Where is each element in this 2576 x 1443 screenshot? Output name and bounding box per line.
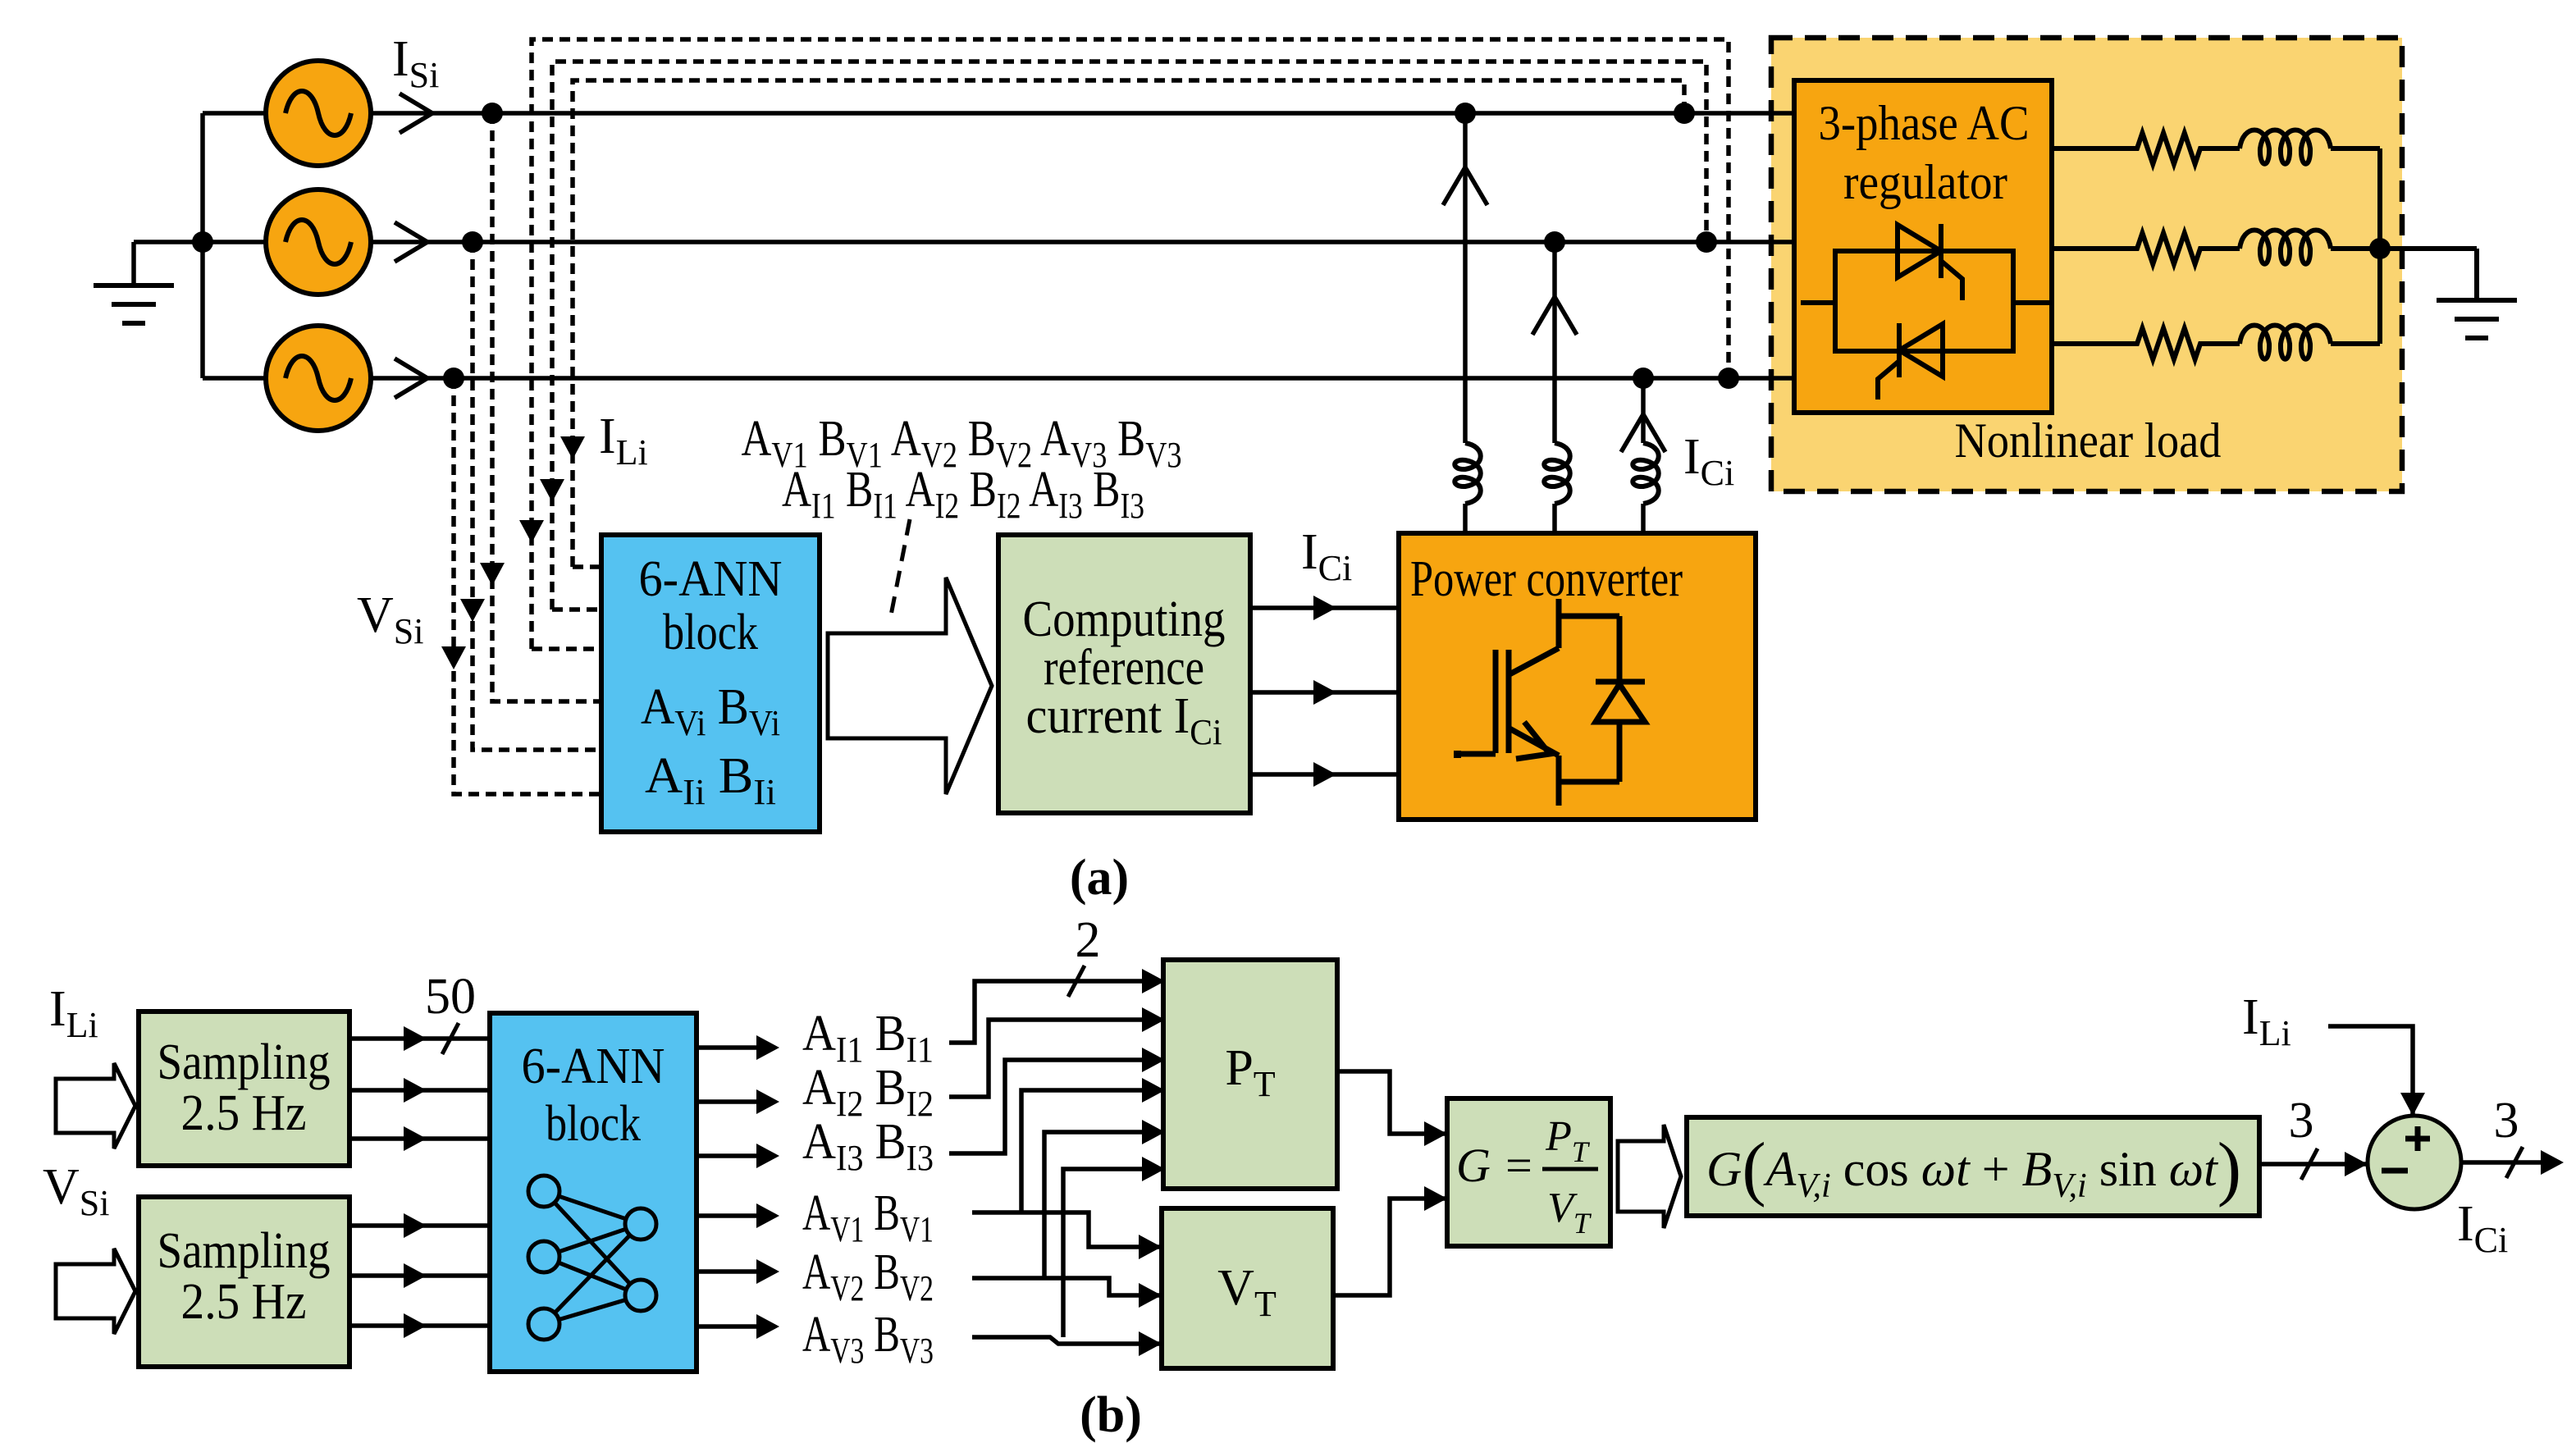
svg-text:Sampling: Sampling <box>158 1034 331 1090</box>
svg-text:6-ANN: 6-ANN <box>522 1039 665 1094</box>
svg-text:(a): (a) <box>1070 850 1129 906</box>
svg-text:3: 3 <box>2494 1093 2519 1148</box>
svg-text:50: 50 <box>425 969 476 1025</box>
svg-text:Nonlinear load: Nonlinear load <box>1955 413 2222 468</box>
svg-text:AI1 BI1 AI2 BI2 AI3 BI3: AI1 BI1 AI2 BI2 AI3 BI3 <box>782 462 1144 526</box>
svg-text:2.5 Hz: 2.5 Hz <box>181 1085 307 1141</box>
svg-text:Sampling: Sampling <box>158 1223 331 1279</box>
svg-text:3-phase AC: 3-phase AC <box>1819 96 2030 150</box>
svg-text:reference: reference <box>1044 640 1204 696</box>
svg-text:6-ANN: 6-ANN <box>639 551 783 607</box>
svg-text:3: 3 <box>2289 1093 2314 1148</box>
svg-text:G =: G = <box>1456 1139 1535 1192</box>
svg-text:block: block <box>546 1096 641 1152</box>
svg-text:Power converter: Power converter <box>1410 551 1683 607</box>
svg-text:2: 2 <box>1076 912 1101 968</box>
svg-text:2.5 Hz: 2.5 Hz <box>181 1274 307 1330</box>
svg-text:block: block <box>663 605 758 660</box>
svg-text:(b): (b) <box>1080 1387 1142 1443</box>
svg-text:regulator: regulator <box>1843 155 2007 209</box>
svg-text:Computing: Computing <box>1023 591 1226 647</box>
